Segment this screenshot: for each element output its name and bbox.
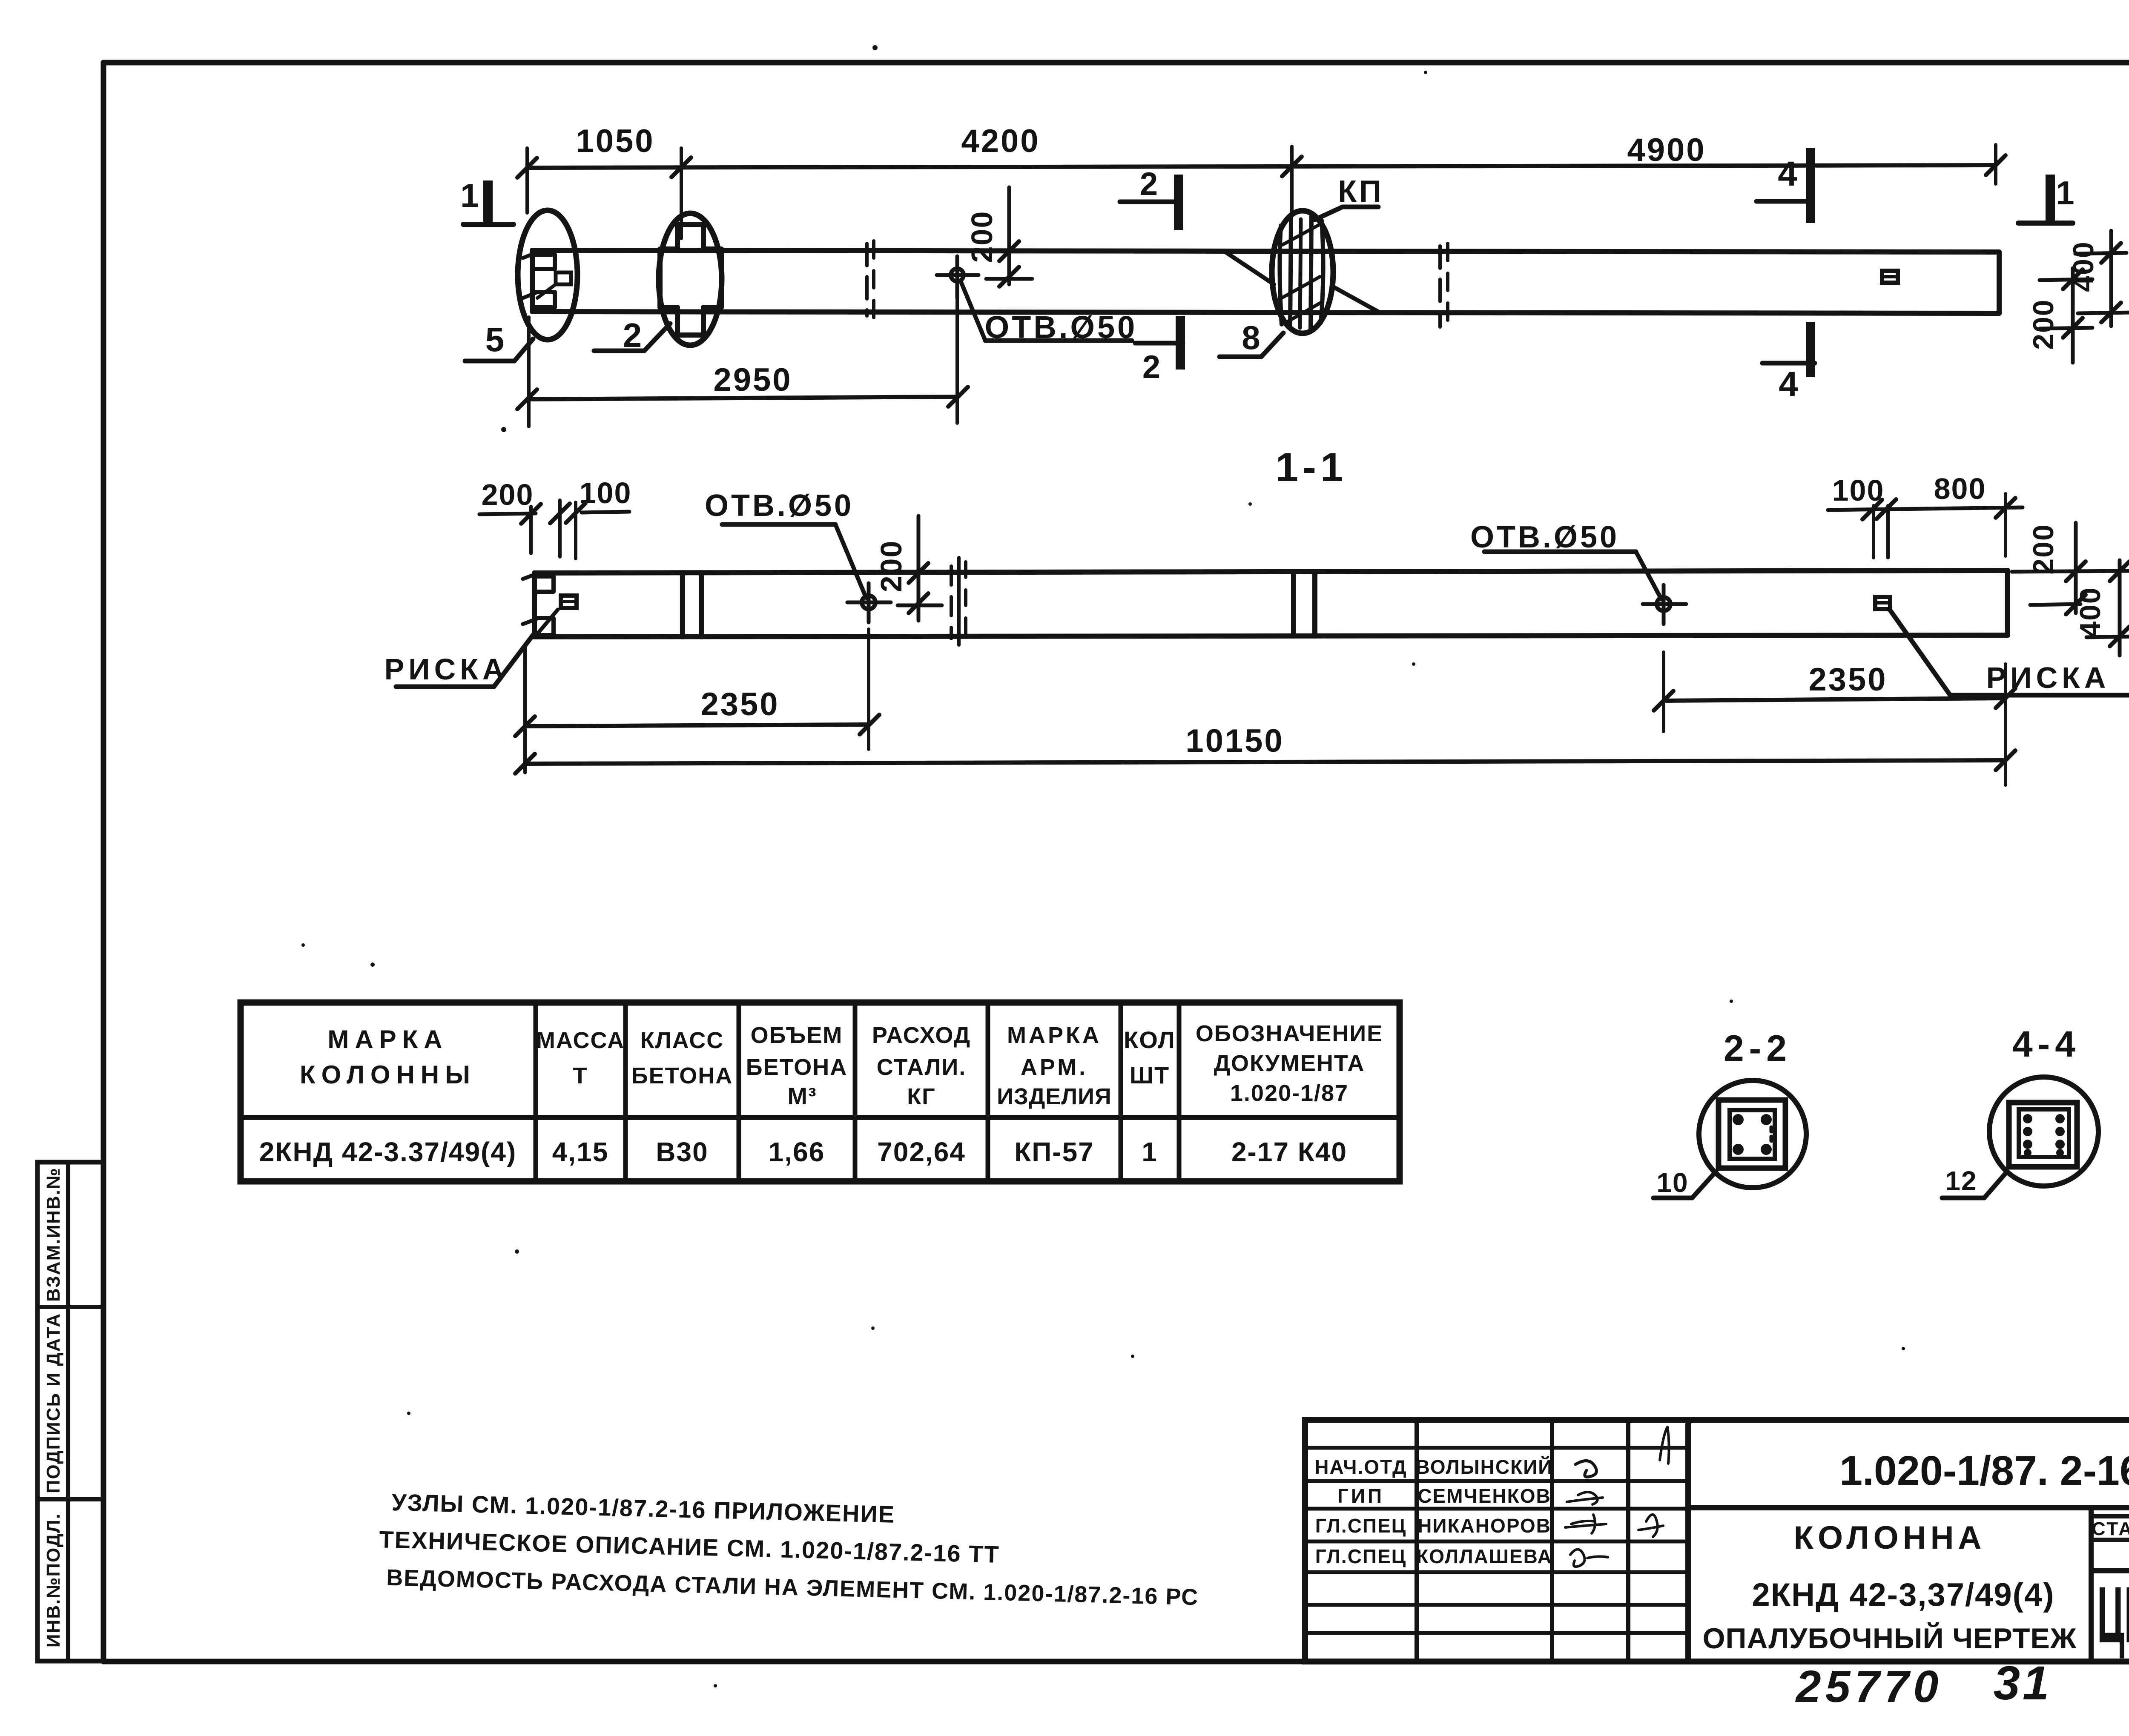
svg-text:2: 2 [1140,166,1158,202]
table header КЛАСС БЕТОНА [631,1028,733,1089]
top dimension chain 1050 / 4200 / 4900 [517,123,2006,238]
dimension 200 at hole (plan) [965,187,1032,286]
hole label ОТВ.Ø50 with leader (1-1 left) [705,489,866,598]
table header ОБОЗНАЧЕНИЕ ДОКУМЕНТА [1196,1021,1383,1106]
svg-text:РАСХОД: РАСХОД [872,1023,971,1048]
svg-text:ОПАЛУБОЧНЫЙ ЧЕРТЕЖ: ОПАЛУБОЧНЫЙ ЧЕРТЕЖ [1703,1622,2077,1655]
svg-text:4200: 4200 [961,123,1040,159]
dimension 200 (plan, right) [2027,268,2092,363]
svg-text:ВОЛЫНСКИЙ: ВОЛЫНСКИЙ [1416,1456,1553,1478]
table header КОЛ ШТ [1124,1026,1176,1089]
svg-text:2350: 2350 [1808,662,1887,698]
svg-text:МАРКА: МАРКА [327,1025,448,1054]
svg-text:ИЗДЕЛИЯ: ИЗДЕЛИЯ [997,1084,1112,1109]
svg-text:31: 31 [1994,1656,2052,1710]
notes text block [378,1488,1201,1610]
label КП with leader [1315,175,1384,220]
dimension 2350 (1-1 left) [515,629,879,773]
svg-text:ВЗАМ.ИНВ.№: ВЗАМ.ИНВ.№ [43,1167,64,1302]
column outline (plan view) [532,250,1999,313]
dimension 2950 (plan) [517,284,968,427]
section detail 4-4 circle [1989,1077,2098,1186]
svg-text:НАЧ.ОТД: НАЧ.ОТД [1314,1456,1407,1478]
section mark 4 (bottom) [1762,322,1815,404]
weld wing lines at КП (plan) [1225,252,1380,312]
end detail tabs at left column end (plan) [523,253,571,307]
svg-text:100: 100 [580,476,632,510]
hole ОТВ Ø50 (1-1, left) [847,583,891,622]
svg-text:12: 12 [1945,1166,1977,1196]
svg-text:2950: 2950 [713,362,792,398]
svg-text:КОЛОННЫ: КОЛОННЫ [300,1060,476,1089]
section mark 2 (bottom) [1135,316,1183,385]
svg-text:КЛАСС: КЛАСС [640,1028,724,1053]
svg-text:КОЛ: КОЛ [1124,1026,1176,1053]
svg-text:ОТВ.Ø50: ОТВ.Ø50 [1470,520,1619,554]
hole label ОТВ.Ø50 with leader (1-1 right) [1470,520,1661,599]
header divider line [1688,1505,2129,1510]
label 8 with leader (plan) [1219,319,1283,357]
svg-text:ОТВ.Ø50: ОТВ.Ø50 [985,309,1138,345]
svg-text:1: 1 [460,177,479,214]
svg-text:200: 200 [482,478,534,511]
svg-text:КОЛЛАШЕВА: КОЛЛАШЕВА [1416,1545,1552,1567]
svg-text:М³: М³ [787,1083,817,1109]
svg-text:В30: В30 [656,1137,708,1167]
svg-text:4-4: 4-4 [2012,1024,2080,1065]
svg-text:702,64: 702,64 [877,1137,966,1167]
dimension 200 at hole (1-1) [875,516,942,621]
svg-text:НИКАНОРОВ: НИКАНОРОВ [1417,1515,1551,1537]
svg-text:БЕТОНА: БЕТОНА [631,1063,733,1089]
svg-text:ОБЪЕМ: ОБЪЕМ [751,1023,843,1048]
svg-text:200: 200 [965,211,999,263]
riska mark at left end (1-1) [537,596,577,634]
svg-text:1050: 1050 [576,123,654,159]
detail oval 2 (plan) [659,213,722,345]
specification table grid [241,1003,1400,1181]
dimension 400 (plan, right) [2067,231,2129,326]
label 2 with leader [594,316,670,354]
svg-text:2-2: 2-2 [1724,1028,1792,1069]
embedded part КП oval detail 8 (plan) [1272,211,1333,333]
svg-text:БЕТОНА: БЕТОНА [746,1054,847,1080]
svg-text:2КНД 42-3.37/49(4): 2КНД 42-3.37/49(4) [259,1137,517,1167]
section mark 2 (top) [1120,166,1179,230]
handwritten signatures [1565,1427,1669,1567]
svg-text:5: 5 [485,321,505,358]
section mark 4 (top) [1756,148,1811,223]
title block name cell [1703,1508,2091,1662]
svg-text:ГЛ.СПЕЦ: ГЛ.СПЕЦ [1315,1515,1407,1537]
svg-text:200: 200 [2027,299,2060,349]
dimension 100 800 (1-1 right) [1828,472,2023,556]
title block signature grid [1305,1420,1688,1662]
label 10 with leader (2-2) [1653,1167,1716,1198]
break mark (plan, right) [1440,243,1448,329]
svg-text:4: 4 [1778,155,1797,193]
svg-text:400: 400 [2074,587,2106,637]
svg-text:ДОКУМЕНТА: ДОКУМЕНТА [1214,1051,1365,1076]
СТАДИЯ ЛИСТ ЛИСТОВ cells [2091,1508,2129,1571]
svg-text:ОБОЗНАЧЕНИЕ: ОБОЗНАЧЕНИЕ [1196,1021,1383,1046]
svg-text:АРМ.: АРМ. [1021,1054,1088,1080]
svg-text:КП-57: КП-57 [1014,1137,1094,1167]
svg-text:25770: 25770 [1795,1662,1943,1712]
break mark (plan, left) [867,241,874,318]
label 5 with leader [465,321,533,361]
svg-text:КГ: КГ [907,1084,936,1109]
dimension 10150 (1-1 overall) [515,664,2015,785]
label РИСКА right with leader [1890,610,2129,695]
svg-text:1: 1 [2056,174,2074,212]
svg-text:200: 200 [2027,524,2060,574]
svg-text:1.020-1/87. 2-16 К24: 1.020-1/87. 2-16 К24 [1839,1447,2129,1494]
svg-text:ИНВ.№ПОДЛ.: ИНВ.№ПОДЛ. [43,1513,64,1647]
svg-text:1: 1 [1142,1137,1158,1167]
end tabs at left column end (1-1) [523,574,554,635]
svg-text:1-1: 1-1 [1276,444,1348,490]
svg-text:2: 2 [1142,349,1160,385]
svg-text:2КНД 42-3,37/49(4): 2КНД 42-3,37/49(4) [1752,1577,2054,1613]
svg-text:МАРКА: МАРКА [1007,1023,1102,1048]
svg-text:8: 8 [1242,319,1260,356]
label РИСКА left with leader [384,634,534,687]
svg-text:2350: 2350 [700,686,779,722]
bottom margin codes [1795,1656,2129,1712]
svg-text:СЕМЧЕНКОВ: СЕМЧЕНКОВ [1417,1485,1551,1507]
svg-text:ЦНИИП: ЦНИИП [2097,1570,2129,1660]
hole ОТВ Ø50 (1-1, right) [1643,585,1686,624]
svg-text:Т: Т [573,1063,588,1089]
svg-text:МАССА: МАССА [536,1028,625,1053]
riska mark (1-1, right) [1875,597,1890,609]
svg-text:ПОДПИСЬ И ДАТА: ПОДПИСЬ И ДАТА [43,1313,64,1493]
ЦНИИП logo and institute name [2097,1570,2129,1660]
riska mark (plan, right half) [1882,271,1898,283]
table header МАРКА АРМ. ИЗДЕЛИЯ [997,1023,1112,1109]
label 12 with leader (4-4) [1942,1166,2006,1198]
svg-text:КП: КП [1338,175,1384,209]
title block outer box [1305,1420,2129,1662]
section mark 1-1 (plan right) [2018,174,2074,223]
table header РАСХОД СТАЛИ КГ [872,1023,971,1109]
section detail 2-2 formwork squares with rebar dots [1719,1100,1785,1168]
form joint double lines (1-1, left) [683,573,701,637]
svg-text:1,66: 1,66 [769,1137,825,1167]
hole ОТВ Ø50 (plan) [937,256,978,298]
svg-text:КОЛОННА: КОЛОННА [1794,1520,1986,1556]
svg-text:1.020-1/87: 1.020-1/87 [1230,1080,1349,1106]
svg-text:100: 100 [1832,474,1885,507]
svg-text:4,15: 4,15 [552,1137,609,1167]
section mark 1-1 (plan left) [460,177,514,225]
svg-text:4900: 4900 [1627,132,1706,168]
break mark (1-1) [951,558,966,645]
svg-text:СТАЛИ.: СТАЛИ. [877,1054,967,1080]
console cross detail (plan) [660,224,721,335]
lifting loop detail oval 5 (plan) [518,210,577,340]
svg-text:РИСКА: РИСКА [384,653,508,686]
dimension 200 100 (1-1 left) [479,476,631,559]
svg-text:10150: 10150 [1185,723,1284,759]
hole label ОТВ.Ø50 with leader (plan) [961,281,1137,345]
dimension 2350 (1-1 right) [1654,652,2015,731]
svg-text:СТАДИЯ: СТАДИЯ [2092,1518,2129,1539]
svg-text:10: 10 [1656,1167,1688,1198]
table header МАРКА КОЛОННЫ [300,1025,476,1089]
section detail 2-2 circle [1699,1080,1806,1188]
table header МАССА Т [536,1028,625,1089]
dimension 200 (1-1 right side) [2012,523,2129,614]
extension lines for 100 dim (1-1, right) [1874,506,1888,558]
svg-text:ГЛ.СПЕЦ: ГЛ.СПЕЦ [1315,1545,1407,1567]
signature rows text [1314,1456,1553,1567]
form joint double lines (1-1, middle) [1294,572,1315,636]
section detail 4-4 formwork squares with rebar dots [2009,1103,2077,1167]
svg-text:200: 200 [875,540,908,593]
svg-text:2-17 К40: 2-17 К40 [1231,1137,1347,1167]
dimension 400 (1-1 right side) [2074,560,2129,656]
svg-text:ГИП: ГИП [1337,1485,1384,1507]
svg-text:4: 4 [1779,365,1798,404]
svg-text:ШТ: ШТ [1130,1062,1170,1089]
table header ОБЪЕМ БЕТОНА М3 [746,1023,847,1109]
column outline (section 1-1) [534,570,2008,637]
svg-text:ОТВ.Ø50: ОТВ.Ø50 [705,489,854,523]
left vertical stamp box [37,1162,103,1661]
table data row [259,1137,1347,1167]
svg-text:800: 800 [1934,472,1986,505]
